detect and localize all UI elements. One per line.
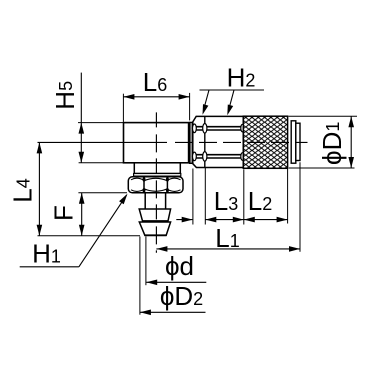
dimension phi D2 — [139, 237, 141, 315]
dimension L4 — [38, 142, 40, 235]
small outside-arrow dimension (collar) — [176, 219, 192, 221]
barb tip edge — [144, 234, 166, 236]
hex nut (vertical axis) — [128, 177, 183, 193]
body block — [124, 123, 189, 163]
vertical center line — [155, 112, 157, 252]
svg-text:ϕd: ϕd — [165, 251, 194, 281]
horizontal center line — [38, 141, 168, 143]
dimension L2 — [244, 219, 288, 221]
bottom extension line (barb tip) — [38, 235, 141, 237]
barb cone 2 — [139, 222, 170, 235]
barb cone 1 — [139, 209, 170, 221]
dimension phi d — [145, 237, 147, 286]
knurled sleeve — [243, 116, 287, 168]
hex chamfer lens marks — [193, 124, 197, 133]
washer between body and nut — [190, 122, 193, 163]
end cap — [296, 123, 300, 160]
collar and hex (horizontal axis) — [193, 116, 244, 167]
dimension H5 — [78, 122, 123, 124]
end flange — [291, 121, 296, 163]
dimension F — [78, 192, 127, 194]
dimension L3 — [205, 219, 244, 221]
svg-text:F: F — [48, 205, 78, 221]
collar divider line — [204, 116, 206, 167]
hex facet lines — [193, 126, 243, 128]
neck below body — [134, 163, 180, 174]
barb neck tube — [144, 193, 146, 209]
bottom row extension lines — [192, 169, 194, 225]
dimension phi D1 — [289, 115, 358, 117]
dimension L6 — [122, 94, 124, 122]
washer under neck — [134, 174, 181, 177]
dimension L1 — [156, 248, 300, 250]
